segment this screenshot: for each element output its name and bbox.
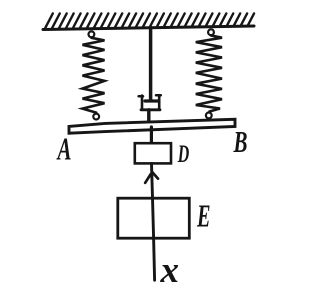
svg-text:D: D (177, 139, 189, 168)
svg-text:B: B (233, 124, 248, 159)
svg-text:A: A (56, 132, 71, 167)
svg-text:E: E (196, 199, 210, 234)
svg-text:x: x (160, 250, 180, 286)
